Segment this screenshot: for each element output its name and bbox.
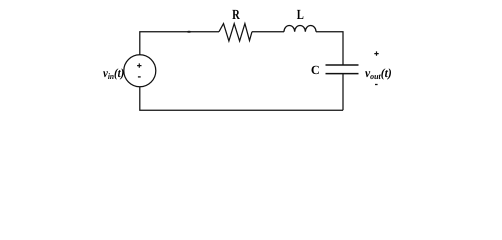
svg-text:vout(t): vout(t) bbox=[365, 66, 392, 81]
svg-text:C: C bbox=[311, 63, 320, 77]
svg-text:vin(t): vin(t) bbox=[103, 66, 124, 81]
svg-text:L: L bbox=[297, 8, 304, 23]
svg-text:R: R bbox=[232, 8, 240, 23]
